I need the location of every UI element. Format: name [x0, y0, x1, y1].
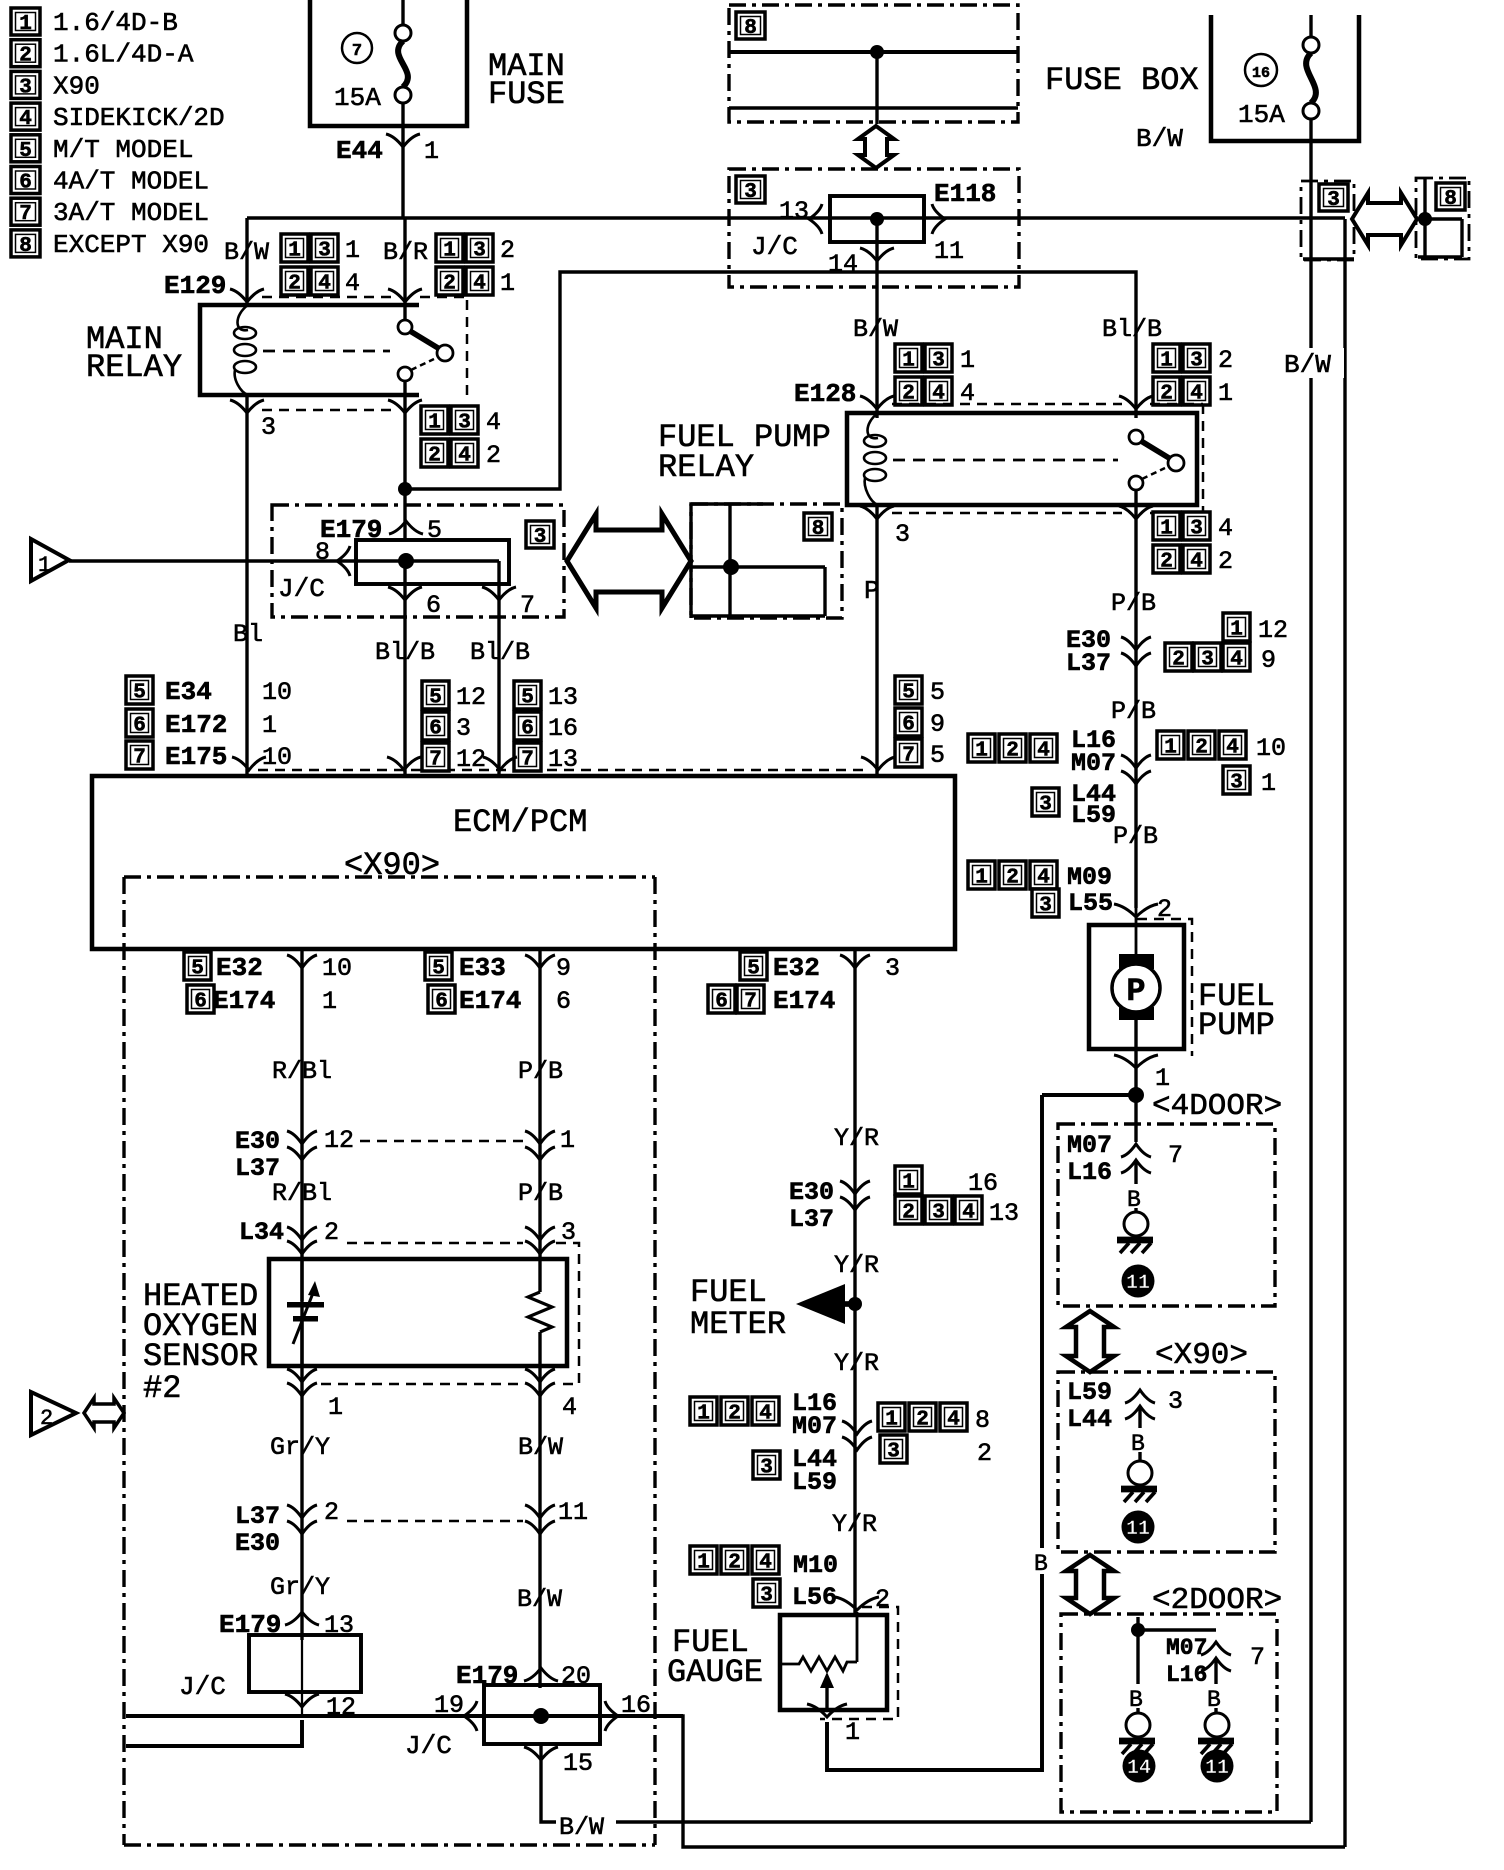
svg-text:PUMP: PUMP — [1198, 1007, 1275, 1044]
circled 16 — [1245, 54, 1277, 86]
svg-text:3: 3 — [534, 526, 547, 549]
svg-text:1: 1 — [902, 350, 915, 373]
svg-text:1: 1 — [885, 1409, 898, 1432]
svg-text:4: 4 — [562, 1393, 577, 1422]
svg-text:4: 4 — [1218, 514, 1233, 543]
connector variant 3 box right — [1301, 181, 1354, 260]
svg-text:4A/T MODEL: 4A/T MODEL — [53, 167, 209, 197]
svg-text:E32: E32 — [773, 953, 820, 983]
wire B/W down — [538, 1366, 541, 1688]
ECM/PCM box — [92, 776, 955, 949]
svg-text:4: 4 — [759, 1552, 772, 1575]
svg-text:2: 2 — [1160, 383, 1173, 406]
junction box variant 8 top — [729, 5, 1018, 122]
wire into pump — [1135, 908, 1138, 957]
label B on riser — [1032, 1548, 1054, 1574]
fuel gauge box — [780, 1615, 887, 1710]
svg-text:M09: M09 — [1067, 863, 1112, 892]
svg-text:4: 4 — [19, 108, 32, 131]
fuel gauge pin 1 — [807, 1704, 847, 1717]
svg-text:2: 2 — [728, 1403, 741, 1426]
connector boxes 2/4 pin1 right — [436, 267, 463, 296]
svg-text:B: B — [1129, 1687, 1143, 1713]
svg-text:R/Bl: R/Bl — [272, 1179, 332, 1208]
svg-text:1: 1 — [975, 740, 988, 763]
main relay pin 3 connector — [230, 400, 264, 413]
svg-text:1: 1 — [443, 240, 456, 263]
svg-text:2: 2 — [486, 441, 501, 470]
wire corner from top bus down right side — [1343, 219, 1346, 1847]
svg-text:2: 2 — [324, 1498, 339, 1527]
svg-text:5: 5 — [521, 687, 534, 710]
variable sensor element — [300, 1259, 303, 1301]
connector stack E34/E172/E175 — [126, 676, 153, 705]
wire into 4door box — [1134, 1095, 1137, 1142]
svg-text:2: 2 — [875, 1585, 890, 1614]
label B/W on right wire — [1282, 348, 1344, 378]
junction box variant 8 top right — [1416, 178, 1469, 259]
svg-text:L37: L37 — [235, 1502, 280, 1531]
svg-text:4: 4 — [473, 273, 486, 296]
svg-text:12: 12 — [456, 683, 486, 712]
svg-text:B/W: B/W — [853, 315, 898, 344]
svg-text:3: 3 — [744, 181, 757, 204]
svg-text:5: 5 — [930, 678, 945, 707]
svg-text:E30: E30 — [789, 1178, 834, 1207]
relay internal dashed link — [263, 350, 390, 353]
svg-text:1: 1 — [288, 240, 301, 263]
svg-text:6: 6 — [521, 718, 534, 741]
svg-text:L34: L34 — [239, 1218, 284, 1247]
svg-text:Bl: Bl — [233, 620, 263, 649]
junction dot E118 — [870, 212, 884, 226]
svg-text:11: 11 — [1126, 1518, 1150, 1541]
legend item 2: 1.6L/4D-A — [11, 40, 40, 68]
svg-text:1.6L/4D-A: 1.6L/4D-A — [53, 40, 194, 70]
svg-text:7: 7 — [902, 745, 915, 768]
svg-text:1: 1 — [960, 346, 975, 375]
fuse box right — [1211, 15, 1359, 141]
connector M09/L55 — [968, 861, 995, 890]
svg-text:3: 3 — [760, 1585, 773, 1608]
svg-text:FUSE BOX: FUSE BOX — [1045, 62, 1199, 99]
variant arrow to except-x90 junction — [567, 514, 691, 608]
wire from gauge pin1 to B wire — [827, 1095, 1042, 1770]
wire in variant8 junction — [728, 504, 731, 618]
svg-text:3: 3 — [1201, 649, 1214, 672]
svg-text:B/W: B/W — [517, 1585, 562, 1614]
svg-text:P/B: P/B — [518, 1179, 563, 1208]
wire R/Bl from ECM — [300, 949, 303, 1259]
svg-text:6: 6 — [715, 991, 728, 1014]
svg-text:10: 10 — [322, 954, 352, 983]
svg-text:2: 2 — [1172, 649, 1185, 672]
fuel pump relay pin 3 — [860, 506, 894, 519]
svg-text:1.6/4D-B: 1.6/4D-B — [53, 8, 178, 38]
svg-text:6: 6 — [556, 987, 571, 1016]
svg-text:2: 2 — [902, 383, 915, 406]
fuel pump relay coil — [868, 413, 879, 438]
svg-text:2: 2 — [1218, 346, 1233, 375]
junction box variant 8 mid — [691, 504, 842, 618]
legend item 6: 4A/T MODEL — [11, 167, 40, 195]
svg-text:2: 2 — [1160, 551, 1173, 574]
svg-text:3: 3 — [1230, 772, 1243, 795]
connector boxes 1/3 pin4 below relay — [421, 406, 448, 435]
svg-text:J/C: J/C — [751, 232, 798, 262]
junction dot in variant 8 box — [870, 45, 884, 59]
connector boxes 1/3 pin4 below FP relay — [1153, 512, 1180, 541]
svg-text:14: 14 — [828, 250, 858, 279]
E128 connector chevrons and dashed outline — [860, 396, 894, 409]
connector boxes 1/3 pin1 E128 — [895, 344, 922, 373]
svg-text:Gr/Y: Gr/Y — [270, 1573, 330, 1602]
svg-text:M07: M07 — [1067, 1131, 1112, 1160]
connector boxes 1/3 pin2 E128 right — [1153, 344, 1180, 373]
E179 pin 7 wire Bl/B — [497, 584, 500, 776]
svg-text:2: 2 — [902, 1202, 915, 1225]
svg-text:4: 4 — [458, 445, 471, 468]
svg-text:4: 4 — [1190, 383, 1203, 406]
gauge wiper arrow — [820, 1672, 834, 1688]
svg-text:1: 1 — [38, 553, 51, 578]
variant arrow vertical — [858, 126, 894, 168]
svg-text:RELAY: RELAY — [86, 349, 182, 386]
wire from junction to B wire left — [1042, 1093, 1136, 1097]
svg-text:3: 3 — [473, 240, 486, 263]
relay dashed link — [893, 459, 1118, 462]
svg-text:4: 4 — [345, 269, 360, 298]
svg-text:E172: E172 — [165, 710, 227, 740]
E179 pin 6 wire Bl/B — [403, 561, 406, 776]
svg-text:2: 2 — [728, 1552, 741, 1575]
E179 pin 5 — [389, 521, 423, 534]
svg-text:5: 5 — [133, 682, 146, 705]
svg-text:11: 11 — [558, 1498, 588, 1527]
legend item 8: EXCEPT X90 — [11, 230, 40, 258]
triangle node 2 — [31, 1392, 76, 1435]
svg-text:E34: E34 — [165, 677, 212, 707]
4door ground box — [1058, 1124, 1275, 1306]
svg-text:E174: E174 — [459, 986, 521, 1016]
connector stack pins 12/3/12 — [422, 681, 449, 710]
svg-text:9: 9 — [1261, 646, 1276, 675]
svg-text:4: 4 — [1037, 740, 1050, 763]
svg-text:5: 5 — [19, 140, 32, 163]
svg-text:16: 16 — [548, 714, 578, 743]
connector boxes 2/4 pin4 E128 — [895, 377, 922, 406]
svg-text:3: 3 — [261, 413, 276, 442]
svg-text:11: 11 — [934, 237, 964, 266]
wire out of pump — [1134, 1012, 1137, 1095]
svg-text:1: 1 — [697, 1403, 710, 1426]
svg-text:P: P — [864, 576, 880, 606]
ECM output E32/E174 pin3 — [840, 955, 870, 968]
svg-text:1: 1 — [1164, 737, 1177, 760]
svg-text:E128: E128 — [794, 379, 856, 409]
svg-text:2: 2 — [977, 1439, 992, 1468]
svg-text:2: 2 — [324, 1218, 339, 1247]
circled 7 — [342, 33, 372, 63]
svg-text:J/C: J/C — [278, 574, 325, 604]
svg-text:E118: E118 — [934, 179, 996, 209]
svg-text:3: 3 — [318, 240, 331, 263]
svg-text:2: 2 — [40, 1406, 53, 1431]
svg-text:B: B — [1127, 1187, 1141, 1213]
svg-text:3: 3 — [895, 520, 910, 549]
svg-text:3: 3 — [1327, 189, 1340, 212]
E179 pin 12 — [285, 1694, 319, 1707]
variant arrow between 4door and x90 — [1066, 1311, 1114, 1372]
svg-text:1: 1 — [845, 1718, 860, 1747]
svg-text:E129: E129 — [164, 271, 226, 301]
svg-text:E174: E174 — [213, 986, 275, 1016]
main relay switch — [403, 218, 406, 321]
svg-text:B/W: B/W — [1284, 350, 1331, 380]
svg-text:8: 8 — [19, 235, 32, 258]
svg-text:Y/R: Y/R — [834, 1251, 879, 1280]
svg-text:3: 3 — [1039, 794, 1052, 817]
legend item 4: SIDEKICK/2D — [11, 103, 40, 131]
E179 pin 15 — [524, 1747, 558, 1760]
svg-text:M07: M07 — [1166, 1635, 1207, 1661]
svg-text:1: 1 — [1218, 379, 1233, 408]
svg-text:1: 1 — [262, 711, 277, 740]
svg-text:16: 16 — [1252, 65, 1270, 82]
ECM pin chevron x500 — [483, 757, 517, 770]
svg-text:4: 4 — [486, 408, 501, 437]
variant arrow between x90 and 2door — [1066, 1555, 1114, 1614]
junction in 2door box — [1136, 1617, 1139, 1630]
svg-text:11: 11 — [1205, 1757, 1229, 1780]
svg-text:L44: L44 — [1067, 1405, 1112, 1434]
svg-text:4: 4 — [962, 1202, 975, 1225]
svg-text:3: 3 — [760, 1457, 773, 1480]
svg-text:3: 3 — [456, 714, 471, 743]
svg-text:E30: E30 — [235, 1127, 280, 1156]
svg-text:6: 6 — [426, 591, 441, 620]
svg-text:1: 1 — [697, 1552, 710, 1575]
wire B to ground 4door — [1134, 1160, 1137, 1184]
svg-text:3: 3 — [19, 76, 32, 99]
svg-text:GAUGE: GAUGE — [667, 1654, 763, 1691]
svg-text:1: 1 — [1230, 619, 1243, 642]
svg-text:Bl/B: Bl/B — [1102, 315, 1162, 344]
ground symbol 2door left — [1126, 1713, 1150, 1737]
E179 upper inner rectangles — [356, 540, 509, 584]
svg-text:3: 3 — [561, 1218, 576, 1247]
svg-text:1: 1 — [1160, 518, 1173, 541]
junction connector E179 box upper — [272, 505, 564, 617]
svg-text:L37: L37 — [1066, 649, 1111, 678]
connector boxes 2/4 pin1 E128 right — [1153, 377, 1180, 406]
sensor pins 1 and 4 — [300, 1259, 303, 1366]
wire Gr/Y down — [300, 1366, 303, 1640]
junction dot variant8 — [723, 559, 739, 575]
ground id 11 4door — [1122, 1265, 1155, 1298]
connector stack pins 5/9/5 — [895, 676, 922, 705]
variant arrow horizontal top right — [1352, 193, 1417, 245]
junction dot E179 lower — [533, 1708, 549, 1724]
svg-text:7: 7 — [521, 749, 534, 772]
svg-text:1: 1 — [500, 269, 515, 298]
svg-text:Gr/Y: Gr/Y — [270, 1433, 330, 1462]
svg-text:2: 2 — [288, 273, 301, 296]
svg-text:8: 8 — [744, 17, 757, 40]
svg-text:3: 3 — [932, 1202, 945, 1225]
wire B to ground x90 — [1138, 1406, 1141, 1428]
svg-text:3: 3 — [1190, 518, 1203, 541]
svg-text:Bl/B: Bl/B — [470, 638, 530, 667]
svg-text:1: 1 — [424, 137, 439, 166]
svg-text:1: 1 — [975, 867, 988, 890]
svg-text:13: 13 — [548, 683, 578, 712]
svg-text:B/W: B/W — [1136, 124, 1183, 154]
ground id 14 — [1123, 1750, 1156, 1783]
svg-text:E30: E30 — [235, 1529, 280, 1558]
svg-text:M07: M07 — [1071, 749, 1116, 778]
E118 pin 14 and wire B/W down — [860, 248, 894, 261]
wire from pin16 to bottom outer — [618, 1716, 1345, 1847]
connector E44 pin 1 — [401, 103, 404, 218]
fuel meter arrow — [796, 1284, 845, 1324]
svg-text:15A: 15A — [334, 83, 381, 113]
fuse symbol fuse box — [1309, 15, 1312, 38]
svg-text:2: 2 — [19, 45, 32, 68]
svg-text:1: 1 — [560, 1126, 575, 1155]
junction dot E179 upper — [398, 553, 414, 569]
fuel pump pin 2 connector — [1114, 904, 1158, 917]
svg-text:1: 1 — [1160, 350, 1173, 373]
svg-text:6: 6 — [429, 718, 442, 741]
heated oxygen sensor box — [269, 1259, 567, 1366]
ECM output E33/E174 pin9/6 — [525, 955, 555, 968]
svg-text:6: 6 — [133, 715, 146, 738]
svg-text:12: 12 — [324, 1126, 354, 1155]
svg-text:EXCEPT X90: EXCEPT X90 — [53, 230, 209, 260]
svg-text:METER: METER — [690, 1306, 786, 1343]
wire from junction down — [875, 52, 878, 124]
svg-text:X90: X90 — [53, 71, 100, 101]
svg-text:5: 5 — [747, 958, 760, 981]
svg-text:ECM/PCM: ECM/PCM — [453, 804, 587, 841]
heater resistor element — [538, 1259, 541, 1292]
svg-text:P/B: P/B — [518, 1057, 563, 1086]
svg-text:L55: L55 — [1068, 889, 1113, 918]
connector L16/M07 on P/B wire — [968, 734, 995, 763]
wire B/W to main relay coil — [245, 218, 248, 305]
svg-text:7: 7 — [520, 591, 535, 620]
wire from main relay switch output — [403, 381, 406, 489]
svg-text:13: 13 — [548, 745, 578, 774]
svg-text:3: 3 — [458, 412, 471, 435]
svg-text:Bl/B: Bl/B — [375, 638, 435, 667]
svg-text:4: 4 — [1230, 649, 1243, 672]
svg-text:7: 7 — [133, 747, 146, 770]
main relay box — [200, 305, 419, 395]
top bus wire B/W — [247, 216, 1345, 219]
svg-text:1: 1 — [902, 1172, 915, 1195]
svg-text:L59: L59 — [1067, 1378, 1112, 1407]
svg-text:3: 3 — [1039, 895, 1052, 918]
E179 pin 16 — [605, 1701, 618, 1731]
connector L16/M07 pins 8/2 — [690, 1397, 717, 1426]
fuse symbol 15A main fuse — [395, 25, 411, 41]
wire Y/R from ECM — [853, 949, 856, 1615]
svg-text:15: 15 — [563, 1749, 593, 1778]
svg-text:12: 12 — [1258, 616, 1288, 645]
svg-text:7: 7 — [429, 749, 442, 772]
svg-text:4: 4 — [1037, 867, 1050, 890]
fuel pump relay box — [847, 413, 1197, 505]
ground symbol x90 — [1128, 1461, 1152, 1485]
junction at relay output — [398, 482, 412, 496]
svg-text:4: 4 — [318, 273, 331, 296]
svg-text:E174: E174 — [773, 986, 835, 1016]
svg-text:4: 4 — [1190, 551, 1203, 574]
svg-text:<X90>: <X90> — [1155, 1338, 1248, 1373]
svg-text:<4DOOR>: <4DOOR> — [1152, 1089, 1282, 1124]
svg-text:4: 4 — [759, 1403, 772, 1426]
dashed connector line above ECM — [258, 769, 868, 771]
svg-text:B: B — [1131, 1431, 1145, 1457]
svg-text:#2: #2 — [143, 1370, 181, 1407]
junction dot below pump — [1128, 1087, 1144, 1103]
svg-text:Y/R: Y/R — [834, 1349, 879, 1378]
svg-text:3: 3 — [932, 350, 945, 373]
X90 variant dash-dot region — [124, 875, 655, 878]
svg-text:9: 9 — [556, 954, 571, 983]
ground symbol 2door right — [1205, 1713, 1229, 1737]
svg-text:E33: E33 — [459, 953, 506, 983]
fuel pump motor — [1119, 954, 1154, 969]
svg-text:7: 7 — [19, 203, 32, 226]
svg-text:M07: M07 — [792, 1412, 837, 1441]
svg-text:4: 4 — [947, 1409, 960, 1432]
svg-text:13: 13 — [989, 1199, 1019, 1228]
svg-text:J/C: J/C — [405, 1731, 452, 1761]
svg-text:7: 7 — [1250, 1643, 1265, 1672]
svg-text:P/B: P/B — [1111, 697, 1156, 726]
svg-text:5: 5 — [930, 741, 945, 770]
svg-text:3A/T MODEL: 3A/T MODEL — [53, 198, 209, 228]
ground id 11 x90 — [1122, 1511, 1155, 1544]
svg-text:2: 2 — [428, 445, 441, 468]
svg-text:2: 2 — [1195, 737, 1208, 760]
svg-text:1: 1 — [1261, 769, 1276, 798]
svg-text:1: 1 — [345, 236, 360, 265]
svg-text:P/B: P/B — [1111, 589, 1156, 618]
svg-text:RELAY: RELAY — [658, 449, 754, 486]
svg-text:13: 13 — [779, 197, 809, 226]
svg-text:1: 1 — [19, 13, 32, 36]
wire Bl from relay pin3 to ECM — [245, 395, 248, 776]
fuel pump pin 1 — [1114, 1055, 1158, 1068]
svg-text:8: 8 — [812, 518, 825, 541]
svg-text:L56: L56 — [792, 1583, 837, 1612]
main fuse box — [310, 0, 467, 126]
svg-text:10: 10 — [1256, 734, 1286, 763]
ECM output E32/E174 pin10/1 — [287, 955, 317, 968]
svg-text:R/Bl: R/Bl — [272, 1057, 332, 1086]
wire P from FP relay to ECM — [875, 505, 878, 776]
connector boxes 2/4 pin2 below relay — [421, 439, 448, 468]
svg-text:E44: E44 — [336, 136, 383, 166]
svg-text:6: 6 — [194, 991, 207, 1014]
svg-text:B: B — [1034, 1551, 1048, 1577]
variant8 inner rectangle — [691, 565, 825, 568]
svg-text:1: 1 — [428, 412, 441, 435]
